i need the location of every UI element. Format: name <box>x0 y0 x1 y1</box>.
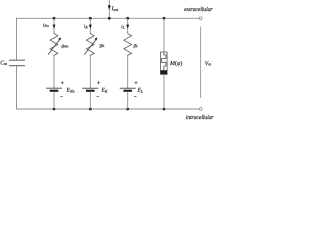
wire branch1 top <box>53 18 55 33</box>
label minus EL <box>134 96 137 98</box>
wire branch2 top <box>89 18 91 33</box>
terminal extracellular <box>199 17 202 20</box>
node junction dots top rail <box>53 17 56 20</box>
wire branch4 top <box>163 18 165 52</box>
wire top rail <box>16 17 199 19</box>
wire branch1 middle <box>53 56 55 88</box>
battery EK <box>82 88 98 92</box>
wire Vm measurement <box>200 27 202 99</box>
arrow Iext <box>108 5 111 9</box>
battery EL <box>120 88 136 92</box>
wire branch3 top <box>127 18 129 33</box>
arrow current iL <box>126 25 129 29</box>
svg-text:ENa: ENa <box>66 88 75 94</box>
svg-text:extracellular: extracellular <box>184 6 213 13</box>
wire external current input <box>108 0 110 18</box>
label minus EK <box>97 96 100 98</box>
arrow variable gK <box>84 39 96 55</box>
wire branch2 middle <box>89 56 91 88</box>
wire branch3 bottom <box>127 92 129 109</box>
svg-text:Cm: Cm <box>0 60 7 66</box>
svg-text:iL: iL <box>121 24 124 30</box>
terminal intracellular <box>199 108 202 111</box>
wire branch1 bottom <box>53 92 55 109</box>
wire branch3 middle <box>127 56 129 88</box>
svg-text:gL: gL <box>134 44 139 49</box>
label plus ENa <box>61 81 64 84</box>
wire left branch upper <box>16 18 18 60</box>
svg-text:gNa: gNa <box>62 44 69 49</box>
svg-text:Iext: Iext <box>111 6 120 12</box>
arrow current iK <box>89 25 92 29</box>
arrow current iNa <box>53 25 56 29</box>
svg-text:M(φ): M(φ) <box>169 60 182 67</box>
svg-text:Vm: Vm <box>205 61 211 67</box>
svg-text:iK: iK <box>84 24 88 30</box>
wire branch4 bottom <box>163 74 165 109</box>
svg-text:gK: gK <box>100 44 106 49</box>
resistor gL <box>124 33 132 57</box>
svg-text:EK: EK <box>101 88 108 94</box>
resistor gNa (variable) <box>50 33 58 57</box>
wire left branch lower <box>16 66 18 110</box>
battery ENa <box>46 88 62 92</box>
svg-text:iNa: iNa <box>43 22 49 28</box>
svg-text:EL: EL <box>137 88 144 94</box>
wire branch2 bottom <box>89 92 91 109</box>
label plus EL <box>135 81 138 84</box>
svg-text:intracellular: intracellular <box>186 114 215 120</box>
arrow variable gNa <box>48 39 60 55</box>
label plus EK <box>97 81 100 84</box>
resistor gK (variable) <box>86 33 94 57</box>
capacitor Cm <box>9 60 25 65</box>
node junction dots bottom rail <box>53 108 56 111</box>
label minus ENa <box>60 96 63 98</box>
wire bottom rail <box>16 108 199 110</box>
memristor M <box>161 52 168 74</box>
